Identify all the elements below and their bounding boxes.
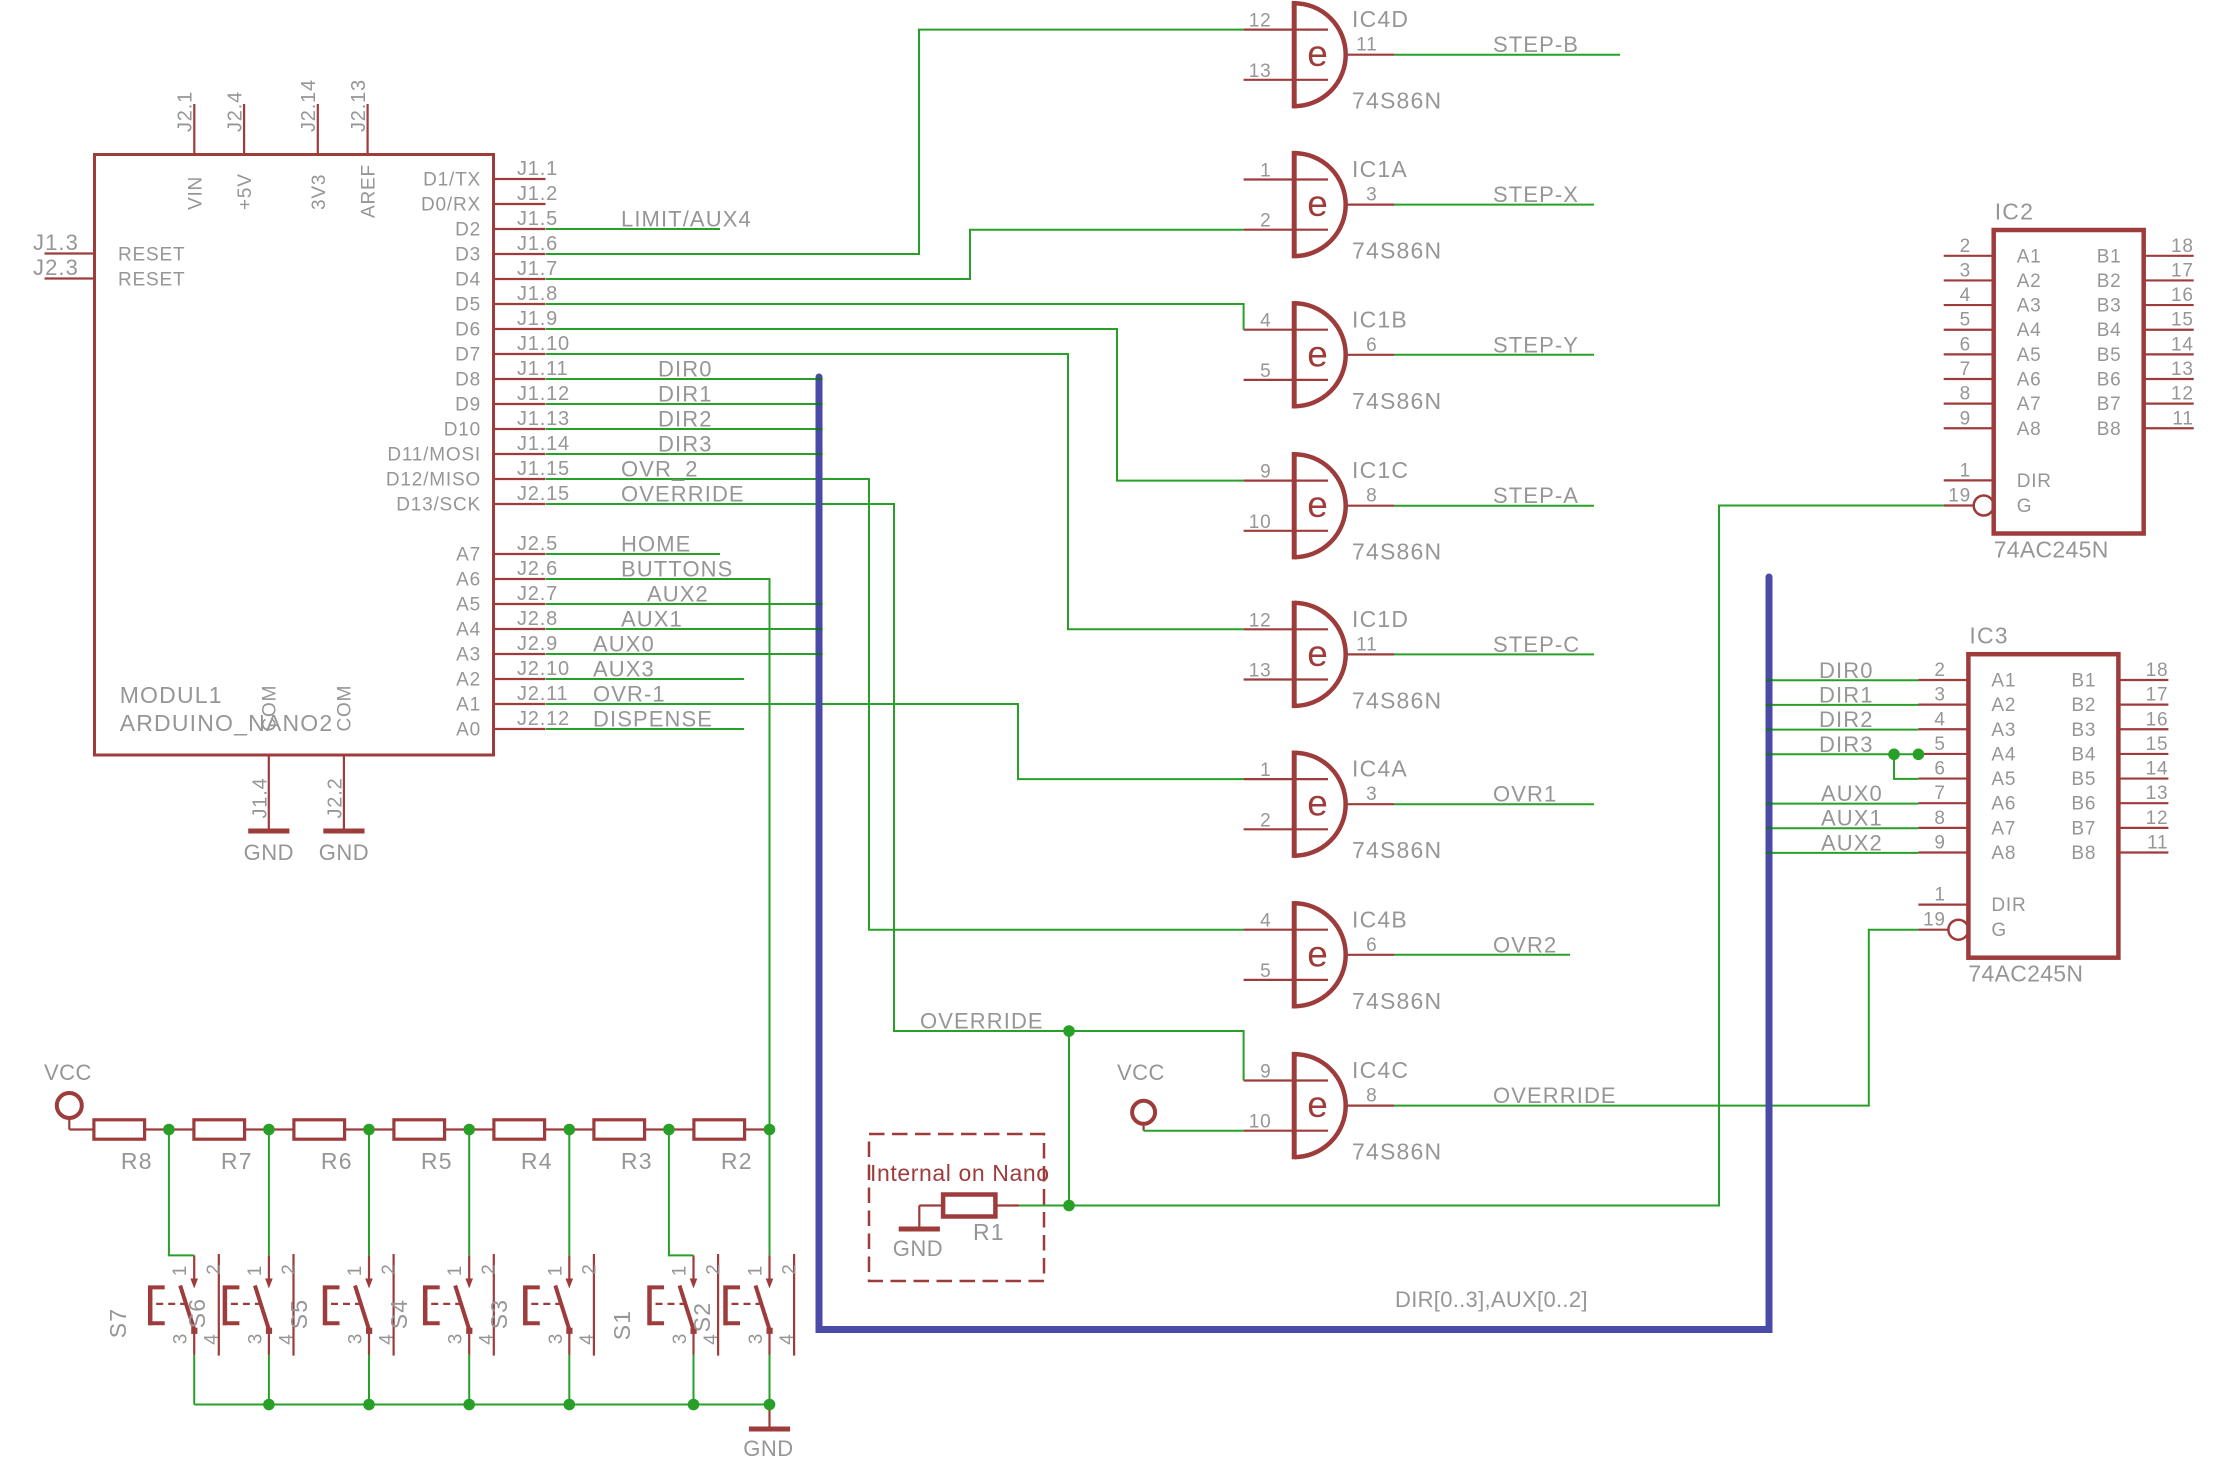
switch S4 xyxy=(386,1254,500,1356)
svg-text:J1.4: J1.4 xyxy=(249,777,271,818)
bus entry stubs xyxy=(816,379,1772,853)
svg-text:18: 18 xyxy=(2171,236,2194,257)
svg-text:R7: R7 xyxy=(221,1148,253,1174)
svg-text:3V3: 3V3 xyxy=(309,174,330,210)
XOR gate IC4A 74S86N xyxy=(1244,751,1443,864)
svg-text:7: 7 xyxy=(1934,783,1945,804)
svg-text:STEP-A: STEP-A xyxy=(1493,483,1579,508)
svg-text:9: 9 xyxy=(1260,1062,1271,1083)
svg-text:2: 2 xyxy=(279,1263,300,1274)
svg-text:RESET: RESET xyxy=(118,270,185,291)
svg-text:IC1C: IC1C xyxy=(1352,457,1409,483)
svg-text:4: 4 xyxy=(202,1333,223,1344)
svg-text:D5: D5 xyxy=(455,295,481,316)
XOR gate IC1A 74S86N xyxy=(1244,151,1443,264)
wire switch S3 pin 3 to rail xyxy=(568,1355,570,1405)
pin 13 (input) xyxy=(1244,79,1328,81)
blade and pivot xyxy=(180,1286,194,1331)
svg-text:AUX0: AUX0 xyxy=(593,632,655,657)
svg-text:2: 2 xyxy=(704,1263,725,1274)
resistor R2 xyxy=(694,1120,753,1174)
bus DIR[0..3],AUX[0..2] xyxy=(819,377,1769,1330)
wire net OVERRIDE J2.15 to IC4C pin 9 xyxy=(546,504,1244,1081)
svg-text:13: 13 xyxy=(1249,61,1272,82)
svg-text:3: 3 xyxy=(1366,185,1377,206)
wire net DIR0 bus to IC3 pin 2 xyxy=(1769,679,1918,681)
svg-text:B8: B8 xyxy=(2071,843,2096,864)
svg-text:2: 2 xyxy=(1934,660,1945,681)
pin 10 (input) xyxy=(1244,530,1328,532)
svg-text:74S86N: 74S86N xyxy=(1352,238,1442,264)
wire net AUX2 bus to IC3 pin 9 xyxy=(1769,852,1918,854)
svg-text:IC1B: IC1B xyxy=(1352,306,1408,332)
switch S2 xyxy=(689,1254,801,1356)
XOR gate IC1C 74S86N xyxy=(1244,452,1443,565)
pin 6 (output) xyxy=(1346,954,1394,956)
svg-text:2: 2 xyxy=(579,1263,600,1274)
svg-text:16: 16 xyxy=(2171,285,2194,306)
svg-text:3: 3 xyxy=(171,1333,192,1344)
pin 3 xyxy=(692,1333,694,1355)
svg-text:9: 9 xyxy=(1960,408,1971,429)
svg-text:D9: D9 xyxy=(455,395,481,416)
svg-text:1: 1 xyxy=(170,1265,191,1276)
svg-text:AUX1: AUX1 xyxy=(1821,806,1883,831)
svg-text:13: 13 xyxy=(2171,359,2194,380)
svg-text:A5: A5 xyxy=(456,595,481,616)
svg-text:DIR: DIR xyxy=(2017,471,2052,492)
svg-text:A4: A4 xyxy=(456,620,481,641)
svg-text:DIR0: DIR0 xyxy=(658,357,713,382)
svg-text:74S86N: 74S86N xyxy=(1352,539,1442,565)
wire VCC to IC4C pin 10 xyxy=(1144,1130,1244,1132)
pins 2 and 4 contact line xyxy=(717,1254,719,1356)
pins 2 and 4 contact line xyxy=(793,1254,795,1356)
svg-text:R3: R3 xyxy=(621,1148,653,1174)
pin J1.14 D11/MOSI xyxy=(387,433,570,466)
wire net DIR3 branch to IC3 pin 6 xyxy=(1894,754,1918,779)
svg-text:OVR-1: OVR-1 xyxy=(593,682,666,707)
pin J1.7 D4 xyxy=(455,258,558,291)
pin 8 (output) xyxy=(1346,1104,1394,1106)
svg-text:J1.1: J1.1 xyxy=(517,158,558,180)
svg-text:A6: A6 xyxy=(456,570,481,591)
XOR gate IC1D 74S86N xyxy=(1244,601,1443,714)
pin 13 (input) xyxy=(1244,678,1328,680)
svg-text:IC4B: IC4B xyxy=(1352,906,1408,932)
svg-text:MODUL1: MODUL1 xyxy=(120,682,223,708)
gate body D-shape with e xyxy=(1294,903,1346,1006)
switch S3 xyxy=(486,1254,600,1356)
svg-text:COM: COM xyxy=(259,685,280,732)
wire node S2 feed xyxy=(769,1130,771,1256)
svg-text:5: 5 xyxy=(1260,361,1271,382)
gate body D-shape with e xyxy=(1294,753,1345,856)
svg-text:1: 1 xyxy=(670,1265,691,1276)
svg-text:15: 15 xyxy=(2146,734,2169,755)
svg-text:19: 19 xyxy=(1923,910,1946,931)
svg-text:DIR1: DIR1 xyxy=(658,382,713,407)
pin 3 xyxy=(268,1333,270,1355)
svg-text:R5: R5 xyxy=(421,1148,453,1174)
pin 6 A5 xyxy=(1918,777,1968,779)
leads xyxy=(919,1204,943,1206)
gate body D-shape with e xyxy=(1294,603,1346,706)
pin J2.9 A3 xyxy=(456,633,558,666)
svg-text:3: 3 xyxy=(1960,260,1971,281)
wire net DISPENSE from J2.12 xyxy=(546,728,744,730)
pins 2 and 4 contact line xyxy=(292,1254,294,1356)
pin 8 A7 xyxy=(1944,403,1994,405)
wire net STEP-X from IC1A pin 3 xyxy=(1394,204,1594,206)
resistor body xyxy=(694,1120,745,1139)
resistor R1 xyxy=(919,1195,1019,1246)
svg-text:GND: GND xyxy=(893,1236,943,1261)
svg-text:7: 7 xyxy=(1960,359,1971,380)
svg-text:COM: COM xyxy=(334,685,355,732)
svg-text:3: 3 xyxy=(1366,784,1377,805)
pin 1 with arrow xyxy=(692,1255,694,1278)
wire net AUX3 from J2.10 xyxy=(546,678,744,680)
resistor body xyxy=(394,1120,445,1139)
svg-text:OVR2: OVR2 xyxy=(1493,932,1557,957)
svg-text:+5V: +5V xyxy=(235,173,256,210)
svg-text:4: 4 xyxy=(777,1333,798,1344)
svg-text:AUX2: AUX2 xyxy=(1821,830,1883,855)
svg-text:9: 9 xyxy=(1260,462,1271,483)
svg-text:DISPENSE: DISPENSE xyxy=(593,707,713,732)
blade and pivot xyxy=(680,1286,694,1331)
pin 3 (output) xyxy=(1346,803,1394,805)
resistor R8 xyxy=(94,1120,153,1174)
svg-text:5: 5 xyxy=(1260,961,1271,982)
resistor R6 xyxy=(294,1120,353,1174)
pin 9 (input) xyxy=(1244,1079,1328,1081)
pin 2 A1 xyxy=(1918,679,1968,681)
svg-text:D4: D4 xyxy=(455,270,481,291)
gate body D-shape with e xyxy=(1294,303,1346,406)
pin J2.10 A2 xyxy=(456,658,570,691)
svg-text:e: e xyxy=(1307,183,1328,224)
svg-text:74AC245N: 74AC245N xyxy=(1994,537,2109,563)
svg-text:8: 8 xyxy=(1960,384,1971,405)
svg-text:S5: S5 xyxy=(286,1299,312,1330)
svg-text:AREF: AREF xyxy=(359,164,380,218)
svg-text:J1.6: J1.6 xyxy=(517,233,558,255)
wire net DIR3 J1.14 to bus xyxy=(546,453,819,455)
pins 2 and 4 contact line xyxy=(593,1254,595,1356)
svg-text:VCC: VCC xyxy=(44,1060,92,1085)
svg-text:R1: R1 xyxy=(973,1219,1005,1245)
svg-text:4: 4 xyxy=(1260,911,1271,932)
pin 2 (input) xyxy=(1244,828,1328,830)
pin 7 A6 xyxy=(1944,378,1994,380)
svg-text:IC2: IC2 xyxy=(1995,199,2034,225)
blade and pivot xyxy=(756,1286,770,1331)
gate body D-shape with e xyxy=(1294,3,1346,106)
resistor body xyxy=(294,1120,345,1139)
svg-text:e: e xyxy=(1307,633,1328,674)
svg-text:J2.8: J2.8 xyxy=(517,608,558,630)
svg-text:A1: A1 xyxy=(2017,246,2042,267)
pin J1.9 D6 xyxy=(455,308,558,341)
svg-text:A3: A3 xyxy=(2017,296,2042,317)
svg-text:J2.11: J2.11 xyxy=(517,683,568,705)
svg-text:3: 3 xyxy=(546,1333,567,1344)
wire net OVR1 from IC4A pin 3 xyxy=(1394,803,1594,805)
svg-text:R2: R2 xyxy=(721,1148,753,1174)
svg-text:D12/MISO: D12/MISO xyxy=(386,470,481,491)
svg-text:IC4D: IC4D xyxy=(1352,6,1409,32)
svg-text:12: 12 xyxy=(1249,11,1272,32)
svg-text:2: 2 xyxy=(780,1263,801,1274)
svg-text:B7: B7 xyxy=(2097,394,2122,415)
wire switch S1 pin 3 to rail xyxy=(693,1355,695,1405)
pin J1.12 D9 xyxy=(455,383,570,416)
svg-text:B4: B4 xyxy=(2097,320,2122,341)
svg-text:13: 13 xyxy=(2146,783,2169,804)
svg-text:6: 6 xyxy=(1960,334,1971,355)
pin 5 A4 xyxy=(1944,329,1994,331)
pin J2.2 COM xyxy=(324,685,355,830)
pins 2 and 4 contact line xyxy=(393,1254,395,1356)
svg-text:B7: B7 xyxy=(2071,818,2096,839)
switch S7 xyxy=(105,1254,225,1356)
svg-text:J2.4: J2.4 xyxy=(224,91,246,132)
svg-text:J2.14: J2.14 xyxy=(298,79,320,132)
svg-text:D7: D7 xyxy=(455,345,481,366)
pin 8 (output) xyxy=(1346,505,1394,507)
svg-text:D10: D10 xyxy=(444,420,481,441)
svg-text:A1: A1 xyxy=(456,695,481,716)
wire node S4 feed xyxy=(468,1130,470,1256)
svg-text:A1: A1 xyxy=(1991,671,2016,692)
pin J1.6 D3 xyxy=(455,233,558,266)
gate body D-shape with e xyxy=(1294,454,1346,557)
svg-text:J2.7: J2.7 xyxy=(517,583,558,605)
svg-text:J1.5: J1.5 xyxy=(517,208,558,230)
svg-text:8: 8 xyxy=(1366,1086,1377,1107)
resistor body xyxy=(94,1120,145,1139)
wire net STEP-B from IC4D pin 11 xyxy=(1394,54,1620,56)
svg-text:J1.15: J1.15 xyxy=(517,458,570,480)
actuator E symbol with dashed link xyxy=(148,1286,153,1326)
pin 3 xyxy=(468,1333,470,1355)
svg-text:STEP-B: STEP-B xyxy=(1493,32,1579,57)
pin 3 (output) xyxy=(1346,204,1394,206)
svg-text:GND: GND xyxy=(743,1436,793,1461)
pin 1 with arrow xyxy=(193,1255,195,1278)
pin 1 with arrow xyxy=(268,1255,270,1278)
IC body xyxy=(1994,230,2144,534)
svg-text:J2.5: J2.5 xyxy=(517,533,558,555)
wire switch S5 pin 3 to rail xyxy=(368,1355,370,1405)
pin 6 (output) xyxy=(1346,354,1394,356)
svg-text:6: 6 xyxy=(1366,935,1377,956)
svg-text:A2: A2 xyxy=(456,670,481,691)
svg-text:D6: D6 xyxy=(455,320,481,341)
svg-text:B5: B5 xyxy=(2071,769,2096,790)
wire net STEP-Y from IC1B pin 6 xyxy=(1394,354,1594,356)
svg-text:J1.8: J1.8 xyxy=(517,283,558,305)
svg-text:8: 8 xyxy=(1366,486,1377,507)
svg-text:e: e xyxy=(1307,33,1328,74)
svg-text:5: 5 xyxy=(1960,310,1971,331)
pin J1.1 D1/TX xyxy=(423,158,558,191)
svg-text:AUX2: AUX2 xyxy=(647,582,709,607)
wire net AUX1 bus to IC3 pin 8 xyxy=(1769,827,1918,829)
actuator E symbol with dashed link xyxy=(423,1286,428,1326)
svg-text:A7: A7 xyxy=(456,545,481,566)
svg-text:A6: A6 xyxy=(1991,794,2016,815)
svg-text:A4: A4 xyxy=(1991,744,2016,765)
blade and pivot xyxy=(555,1286,569,1331)
svg-text:IC1A: IC1A xyxy=(1352,156,1408,182)
wire net LIMIT/AUX4 from J1.5 xyxy=(546,228,720,230)
pin 1 with arrow xyxy=(568,1255,570,1278)
pin 4 (input) xyxy=(1244,929,1328,931)
svg-text:4: 4 xyxy=(701,1333,722,1344)
pin 4 (input) xyxy=(1244,329,1328,331)
svg-text:A5: A5 xyxy=(2017,345,2042,366)
svg-text:12: 12 xyxy=(2171,384,2194,405)
svg-text:S4: S4 xyxy=(386,1299,412,1330)
XOR gate IC4B 74S86N xyxy=(1244,901,1443,1014)
svg-text:e: e xyxy=(1307,1084,1328,1125)
XOR gate IC4C 74S86N xyxy=(1244,1052,1443,1165)
pin 9 (input) xyxy=(1244,480,1328,482)
wire node S5 feed xyxy=(368,1130,370,1256)
svg-text:11: 11 xyxy=(2172,408,2193,429)
svg-text:11: 11 xyxy=(1356,35,1377,56)
resistor R3 xyxy=(594,1120,653,1174)
pin 1 DIR xyxy=(1944,479,1994,481)
IC IC3 74AC245N xyxy=(1918,623,2168,987)
resistor R5 xyxy=(394,1120,453,1174)
wire net AUX0 bus to IC3 pin 7 xyxy=(1769,803,1918,805)
frame Internal on Nano (dashed) xyxy=(869,1134,1050,1281)
pin J2.6 A6 xyxy=(456,558,558,591)
svg-text:B3: B3 xyxy=(2097,296,2122,317)
svg-text:A0: A0 xyxy=(456,720,481,741)
svg-text:D0/RX: D0/RX xyxy=(421,195,481,216)
pin 3 xyxy=(568,1333,570,1355)
svg-text:IC4A: IC4A xyxy=(1352,756,1408,782)
svg-text:A7: A7 xyxy=(2017,394,2042,415)
svg-text:14: 14 xyxy=(2146,759,2169,780)
svg-text:2: 2 xyxy=(479,1263,500,1274)
pin J1.3 RESET xyxy=(33,230,185,266)
svg-text:9: 9 xyxy=(1934,832,1945,853)
svg-text:1: 1 xyxy=(1260,760,1271,781)
pin J2.11 A1 xyxy=(456,683,568,716)
svg-text:A5: A5 xyxy=(1991,769,2016,790)
pin J2.12 A0 xyxy=(456,708,570,741)
svg-text:A2: A2 xyxy=(1991,695,2016,716)
svg-text:STEP-Y: STEP-Y xyxy=(1493,332,1579,357)
power VCC (left) xyxy=(44,1060,92,1130)
wire net N$D4 J1.7 to IC1A pin 2 xyxy=(546,230,1244,279)
svg-text:B8: B8 xyxy=(2097,419,2122,440)
svg-text:G: G xyxy=(1991,920,2007,941)
pin 2 A1 xyxy=(1944,255,1994,257)
svg-text:1: 1 xyxy=(746,1265,767,1276)
pin 6 A5 xyxy=(1944,353,1994,355)
svg-text:D11/MOSI: D11/MOSI xyxy=(387,445,481,466)
svg-text:15: 15 xyxy=(2171,310,2194,331)
svg-text:4: 4 xyxy=(1934,709,1945,730)
svg-text:GND: GND xyxy=(244,840,294,865)
blade and pivot xyxy=(355,1286,369,1331)
svg-text:LIMIT/AUX4: LIMIT/AUX4 xyxy=(621,207,752,232)
wire switch S2 pin 3 to rail xyxy=(769,1355,771,1405)
svg-text:4: 4 xyxy=(477,1333,498,1344)
pin J2.1 VIN xyxy=(175,91,207,210)
svg-text:13: 13 xyxy=(1249,661,1272,682)
svg-text:2: 2 xyxy=(204,1263,225,1274)
svg-text:3: 3 xyxy=(446,1333,467,1344)
wire net N$D6 J1.9 to IC1C pin 9 xyxy=(546,329,1244,481)
pin J1.5 D2 xyxy=(455,208,558,241)
svg-text:A8: A8 xyxy=(1991,843,2016,864)
wire node S7 feed xyxy=(169,1130,194,1256)
pin 5 A4 xyxy=(1918,753,1968,755)
pin 3 A2 xyxy=(1918,704,1968,706)
svg-text:J1.7: J1.7 xyxy=(517,258,558,280)
svg-text:IC1D: IC1D xyxy=(1352,606,1409,632)
svg-text:12: 12 xyxy=(1249,610,1272,631)
svg-text:J2.10: J2.10 xyxy=(517,658,570,680)
svg-text:G: G xyxy=(2017,496,2033,517)
svg-text:OVERRIDE: OVERRIDE xyxy=(1493,1083,1617,1108)
pin 11 (output) xyxy=(1346,54,1394,56)
svg-text:J2.2: J2.2 xyxy=(324,777,346,818)
resistor body xyxy=(494,1120,545,1139)
pin 7 A6 xyxy=(1918,802,1968,804)
svg-text:12: 12 xyxy=(2146,808,2169,829)
svg-text:74S86N: 74S86N xyxy=(1352,988,1442,1014)
wire net OVR2 from IC4B pin 6 xyxy=(1394,954,1570,956)
svg-text:J1.13: J1.13 xyxy=(517,408,570,430)
svg-text:74AC245N: 74AC245N xyxy=(1968,961,2083,987)
svg-text:J1.9: J1.9 xyxy=(517,308,558,330)
svg-text:S7: S7 xyxy=(105,1308,131,1339)
wire net AUX0 J2.9 to bus xyxy=(546,653,819,655)
pin J2.13 AREF xyxy=(348,79,380,218)
svg-text:6: 6 xyxy=(1366,335,1377,356)
module MODUL1 ARDUINO_NANO2 xyxy=(95,155,494,756)
gate body D-shape with e xyxy=(1294,1054,1346,1157)
module body xyxy=(95,155,494,756)
svg-text:J2.15: J2.15 xyxy=(517,483,570,505)
pin J1.4 COM xyxy=(249,685,280,830)
pin 19 G (inverting bubble) xyxy=(1944,504,1974,506)
switch S5 xyxy=(286,1254,400,1356)
wire ground rail xyxy=(194,1404,769,1406)
wire net OVERRIDE R1 to IC2 pin 19 xyxy=(1019,506,1943,1206)
wire net N$D3 J1.6 to IC4D pin 12 xyxy=(546,30,1244,254)
svg-text:74S86N: 74S86N xyxy=(1352,88,1442,114)
svg-text:A7: A7 xyxy=(1991,818,2016,839)
svg-text:18: 18 xyxy=(2146,660,2169,681)
wire node S1 feed xyxy=(669,1130,694,1256)
svg-text:AUX1: AUX1 xyxy=(621,607,683,632)
pin J1.10 D7 xyxy=(455,333,570,366)
svg-text:DIR: DIR xyxy=(1991,895,2026,916)
svg-text:J1.2: J1.2 xyxy=(517,183,558,205)
svg-text:74S86N: 74S86N xyxy=(1352,388,1442,414)
wire net DIR1 J1.12 to bus xyxy=(546,403,819,405)
